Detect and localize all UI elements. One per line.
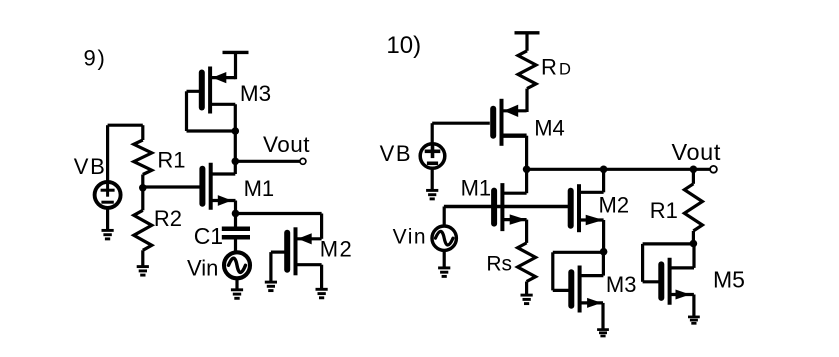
svg-text:M4: M4 [534, 115, 565, 140]
wire: VB to M4 gate [432, 123, 490, 144]
source Vin (circuit 10) [432, 226, 456, 250]
source Vin (circuit 9) [224, 252, 250, 278]
M2 label (circuit 9) [320, 236, 354, 261]
Rs label [486, 252, 512, 275]
R2 label (circuit 9) [154, 206, 182, 231]
node: M1 source / C1 / M2 junction [232, 210, 240, 218]
ground under VB (circuit 10) [426, 190, 438, 199]
M2 label (circuit 10) [599, 193, 630, 218]
R1 label (circuit 10) [650, 198, 678, 223]
svg-text:M2: M2 [599, 193, 630, 218]
node: R1 bottom / M5 drain junction [690, 240, 698, 248]
svg-text:Vin: Vin [187, 255, 218, 280]
node: M2 drain on rail [600, 166, 608, 174]
svg-text:VB: VB [380, 141, 413, 166]
ground under Rs [521, 295, 533, 304]
M1 label (circuit 9) [244, 176, 275, 201]
svg-text:M3: M3 [240, 81, 271, 106]
svg-text:Vin: Vin [393, 226, 427, 249]
wire: Vout stub with open terminal [235, 158, 306, 164]
transistor M3 (PMOS, diode-connected) [202, 67, 236, 114]
resistor R2 (circuit 9) [134, 188, 152, 266]
svg-text:R: R [541, 55, 557, 80]
transistor M1 (circuit 10) [494, 169, 526, 231]
wire: VB bottom lead (circuit 10) [431, 167, 434, 189]
transistor M1 (NMOS, circuit 9) [202, 163, 235, 210]
M1 label (circuit 10) [461, 175, 492, 200]
wire: M3 drain down to M1 drain (output branch) [234, 104, 237, 174]
Vin label (circuit 9) [187, 255, 218, 280]
C1 label [194, 223, 223, 249]
Vout label (circuit 10) [672, 139, 721, 165]
wire: M3 gate diode loop (circuit 10) [553, 252, 604, 290]
VB label (circuit 9) [74, 154, 107, 179]
M4 label [534, 115, 565, 140]
svg-text:D: D [559, 61, 571, 79]
svg-text:M1: M1 [244, 176, 275, 201]
node: Vout (circuit 9) [232, 158, 240, 166]
M3 label [240, 81, 271, 106]
node: M3 gate-drain junction [232, 127, 240, 135]
wire: VB bottom lead [106, 208, 109, 230]
resistor R1 (circuit 10) [684, 169, 702, 243]
transistor M2 (circuit 9) [287, 227, 321, 288]
ground under M5 [688, 317, 700, 323]
wire: Vin bottom lead (circuit 10) [443, 249, 446, 266]
svg-text:VB: VB [74, 154, 107, 179]
transistor M5 (diode-connected) [661, 244, 694, 317]
wire: M5 gate diode loop [643, 244, 694, 282]
svg-text:9): 9) [84, 46, 107, 71]
svg-text:R2: R2 [154, 206, 182, 231]
circuit 10 label [386, 32, 421, 59]
ground under M2 gate [265, 282, 277, 291]
wire: common gate line Vin to M1/M2 gates [444, 205, 571, 209]
VDD supply bar (circuit 9) [223, 52, 249, 79]
wire: M1 source down to C1/M2 node [234, 201, 237, 215]
ground under Vin (circuit 9) [231, 290, 243, 299]
wire: output rail (circuit 10) [527, 168, 711, 171]
svg-text:R1: R1 [650, 198, 678, 223]
svg-text:C1: C1 [194, 223, 223, 249]
svg-text:M2: M2 [320, 236, 354, 261]
Vout label (circuit 9) [263, 132, 310, 157]
Vin label (circuit 10) [393, 226, 427, 249]
svg-text:M5: M5 [713, 267, 745, 293]
wire: VB top to R1 top [108, 125, 143, 182]
wire: M2 gate to ground [271, 252, 286, 281]
svg-text:Vout: Vout [672, 139, 721, 165]
ground under M3 (circuit 10) [597, 330, 609, 336]
Vout open terminal (circuit 10) [710, 166, 717, 173]
wire: Vin top lead (circuit 10) [443, 207, 446, 227]
node: M4 drain / M1 drain [523, 166, 531, 174]
resistor R1 (circuit 9) [134, 125, 152, 188]
node: R1/R2/M1-gate junction [139, 184, 147, 192]
svg-text:Rs: Rs [486, 252, 512, 275]
voltage source VB (circuit 9) [95, 182, 121, 208]
ground under M2 source [316, 289, 328, 298]
node: R1 top on rail [690, 166, 698, 174]
svg-text:M1: M1 [461, 175, 492, 200]
VDD supply bar (circuit 10) [515, 33, 540, 51]
resistor Rs [518, 243, 536, 294]
svg-text:M3: M3 [606, 272, 637, 297]
wire: M3 gate diode connection loop [187, 91, 236, 131]
M3 label (circuit 10) [606, 272, 637, 297]
wire: M1 source to Rs [525, 220, 528, 243]
transistor M4 (PMOS) [493, 99, 526, 170]
wire: bias node to M1 gate [143, 185, 200, 188]
resistor RD [518, 51, 536, 112]
svg-text:R1: R1 [157, 148, 185, 173]
transistor M3 (circuit 10, diode-connected) [571, 252, 603, 329]
M5 label [713, 267, 745, 293]
svg-text:Vout: Vout [263, 132, 310, 157]
ground under VB (circuit 9) [102, 230, 114, 239]
ground under Vin (circuit 10) [438, 268, 450, 277]
wire: Vin bottom lead (circuit 9) [235, 278, 238, 289]
wire: node to M2 top [236, 214, 322, 239]
R1 label (circuit 9) [157, 148, 185, 173]
node: M2 source / M3 drain junction [600, 248, 608, 256]
voltage source VB (circuit 10) [420, 144, 445, 169]
svg-text:10): 10) [386, 32, 421, 59]
RD label [541, 55, 571, 80]
VB label (circuit 10) [380, 141, 413, 166]
capacitor C1 [222, 213, 250, 252]
transistor M2 (circuit 10) [571, 169, 604, 252]
circuit 9 label [84, 46, 107, 71]
ground under R2 [137, 267, 149, 276]
